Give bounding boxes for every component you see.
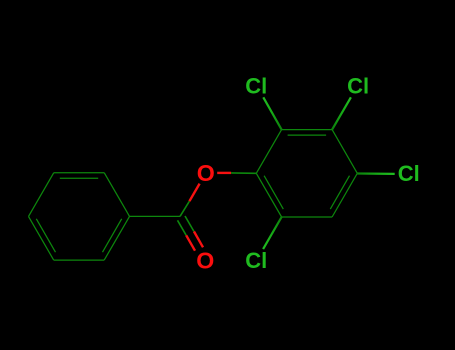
svg-text:Cl: Cl bbox=[398, 161, 420, 186]
wire ring edge C1-C2 bbox=[256, 130, 281, 174]
wire ring edge tr-right bbox=[104, 173, 129, 217]
wire ring edge C2-C3 bbox=[282, 129, 333, 131]
wire double bond inner top bbox=[60, 177, 98, 179]
wire double bond inner lower-right bbox=[103, 219, 122, 252]
svg-text:Cl: Cl bbox=[245, 74, 267, 99]
wire double bond inner top bbox=[288, 134, 327, 136]
wire C=O right line carbon half bbox=[185, 216, 194, 232]
wire ring edge right-br bbox=[104, 216, 129, 260]
wire double bond inner right bbox=[330, 176, 349, 209]
wire bond ester O to ring C1 oxygen half bbox=[217, 172, 231, 174]
wire double bond inner lower-left bbox=[36, 219, 55, 252]
svg-text:O: O bbox=[196, 248, 214, 274]
wire ring edge C6-C1 bbox=[256, 173, 281, 217]
wire C3-Cl bond bbox=[332, 97, 351, 129]
wire C=O right line oxygen half bbox=[194, 232, 203, 248]
wire ring edge C4-C5 bbox=[332, 173, 357, 217]
wire C4-Cl bond bbox=[357, 172, 394, 175]
svg-text:Cl: Cl bbox=[347, 74, 369, 99]
wire bond carbonyl C to ester O carbon half bbox=[180, 201, 189, 216]
wire C2-Cl bond bbox=[263, 97, 281, 129]
wire ring edge left-tl bbox=[29, 173, 54, 217]
wire C=O left line oxygen half bbox=[186, 235, 195, 250]
wire bond ester O to ring C1 carbon half bbox=[231, 172, 256, 174]
wire ring edge C3-C4 bbox=[332, 130, 357, 174]
wire ring edge bl-left bbox=[29, 216, 54, 260]
benzene ring (benzoyl phenyl) bbox=[29, 173, 181, 260]
wire ring edge tl-tr bbox=[54, 172, 104, 174]
tetrachlorophenyl ring bbox=[256, 130, 357, 217]
atom labels bbox=[196, 74, 420, 274]
wire double bond inner left bbox=[264, 176, 283, 209]
wire C6-Cl bond bbox=[263, 217, 282, 249]
wire ring edge C5-C6 bbox=[282, 216, 333, 218]
wire bond carbonyl C to ester O oxygen half bbox=[189, 184, 199, 202]
wire bond ring to carbonyl C bbox=[130, 215, 181, 217]
svg-text:O: O bbox=[197, 160, 215, 186]
C-Cl bonds bbox=[263, 97, 395, 249]
ester group bonds bbox=[178, 173, 257, 251]
svg-text:Cl: Cl bbox=[245, 248, 267, 273]
wire ring edge br-bl bbox=[54, 259, 104, 261]
wire C=O left line carbon half bbox=[178, 220, 187, 235]
